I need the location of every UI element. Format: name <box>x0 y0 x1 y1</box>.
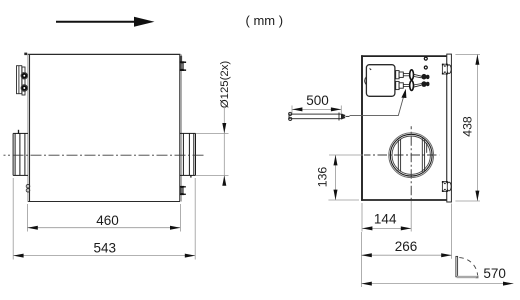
junction box (side view) <box>17 66 26 95</box>
top-right clamp <box>180 56 186 71</box>
dimension 144 <box>362 201 411 232</box>
top-left nub <box>24 53 27 56</box>
dimension 266 <box>361 204 451 288</box>
dimension 500 <box>292 93 341 113</box>
centerline <box>4 154 206 156</box>
outlet circle centerline vertical <box>410 126 412 201</box>
dimension 438 <box>455 54 480 201</box>
svg-text:570: 570 <box>483 266 506 281</box>
dimension 543 <box>13 178 195 260</box>
svg-text:438: 438 <box>460 116 474 137</box>
svg-text:136: 136 <box>315 167 329 188</box>
airflow direction arrow <box>56 17 155 27</box>
svg-text:460: 460 <box>96 213 119 228</box>
right flange strip <box>447 54 452 202</box>
svg-text:144: 144 <box>374 212 397 227</box>
capillary sensor tube <box>289 112 350 120</box>
right spigot <box>180 133 196 177</box>
body outline <box>28 54 182 202</box>
valve fitting row 1 <box>396 70 430 80</box>
bottom-right clamp <box>180 186 186 195</box>
svg-text:500: 500 <box>306 93 329 108</box>
svg-text:543: 543 <box>94 240 117 255</box>
valve fitting row 2 <box>396 81 430 91</box>
outlet circle centerline horizontal <box>364 154 439 156</box>
dimension Ø125(2x) <box>196 61 231 186</box>
dimension 570 <box>361 266 513 286</box>
cable gland lower <box>21 85 28 92</box>
bottom-left clip <box>26 184 30 192</box>
outlet circle <box>389 133 434 178</box>
junction box (front) <box>365 65 395 97</box>
svg-text:Ø125(2x): Ø125(2x) <box>219 61 231 109</box>
leader line to valve <box>350 89 407 116</box>
dimension 136 <box>315 155 363 200</box>
svg-text:( mm ): ( mm ) <box>246 13 284 28</box>
bottom latch <box>442 181 451 192</box>
main face <box>361 55 448 201</box>
inner duct lines <box>398 139 426 172</box>
top latch <box>442 64 451 75</box>
cable gland upper <box>21 72 28 79</box>
face screws <box>424 57 427 60</box>
left spigot <box>13 130 28 176</box>
svg-text:266: 266 <box>395 239 418 254</box>
corner bend symbol <box>456 256 479 278</box>
dimension 460 <box>27 204 180 232</box>
